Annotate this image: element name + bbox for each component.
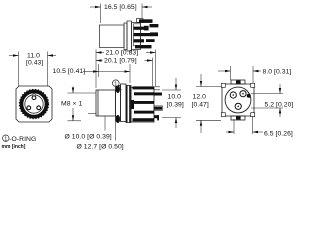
svg-text:11.0: 11.0 [27, 53, 40, 60]
svg-text:16.5 [0.65]: 16.5 [0.65] [104, 4, 137, 11]
svg-text:21.0 [0.83]: 21.0 [0.83] [106, 49, 139, 56]
svg-text:[0.39]: [0.39] [167, 102, 184, 109]
svg-text:Ø 12.7 [Ø 0.50]: Ø 12.7 [Ø 0.50] [77, 144, 124, 151]
svg-text:12.0: 12.0 [193, 94, 207, 101]
svg-text:[0.43]: [0.43] [26, 60, 43, 67]
svg-text:8.0 [0.31]: 8.0 [0.31] [263, 69, 292, 76]
svg-text:1: 1 [4, 137, 7, 143]
svg-text:5.2 [0.20]: 5.2 [0.20] [265, 102, 294, 109]
svg-text:10.0: 10.0 [168, 94, 182, 101]
svg-text:-O-RING: -O-RING [9, 136, 36, 143]
svg-text:20.1 [0.79]: 20.1 [0.79] [104, 57, 137, 64]
svg-text:[0.47]: [0.47] [192, 102, 209, 109]
svg-text:Ø 10.0 [Ø 0.39]: Ø 10.0 [Ø 0.39] [65, 134, 112, 141]
svg-text:mm [inch]: mm [inch] [2, 144, 26, 150]
svg-text:6.5 [0.26]: 6.5 [0.26] [264, 131, 293, 138]
svg-text:M8 × 1: M8 × 1 [61, 101, 82, 108]
svg-text:1: 1 [114, 82, 117, 88]
svg-text:10.5 [0.41]: 10.5 [0.41] [53, 68, 86, 75]
